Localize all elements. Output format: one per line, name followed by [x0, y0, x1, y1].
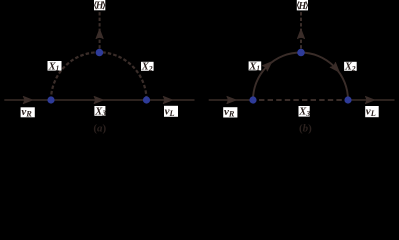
svg-text:(b): (b) — [299, 123, 312, 135]
svg-text:X2: X2 — [141, 62, 153, 73]
svg-text:X1: X1 — [48, 61, 60, 72]
svg-text:X1: X1 — [248, 61, 260, 72]
svg-text:(a): (a) — [93, 123, 106, 135]
svg-text:H: H — [95, 1, 105, 12]
svg-text:H: H — [298, 1, 308, 12]
svg-text:X3: X3 — [94, 106, 106, 117]
svg-text:X3: X3 — [298, 107, 310, 118]
svg-text:X2: X2 — [344, 62, 356, 73]
